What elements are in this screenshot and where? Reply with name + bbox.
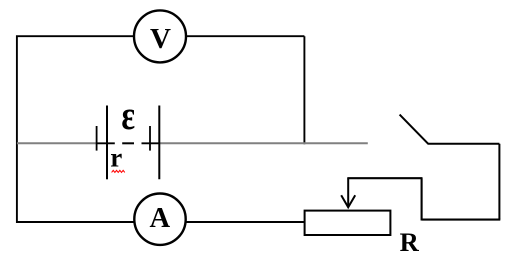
- wire left loop (top side, left vertical, bottom side): [17, 36, 305, 222]
- svg-text:r: r: [110, 143, 122, 173]
- svg-text:A: A: [150, 203, 171, 234]
- wire tick through battery cell 2 plates: [142, 142, 160, 144]
- wire battery net left segment (gray): [17, 142, 97, 144]
- label EMF epsilon: [121, 92, 135, 138]
- wire battery net right segment (gray): [159, 142, 367, 144]
- wire right vertical from top wire down to battery net: [303, 36, 305, 144]
- wire wiper lead horizontal: [347, 177, 422, 179]
- wire central dash inside battery: [122, 142, 134, 144]
- battery cell 1 short plate: [96, 126, 98, 151]
- wire tick through battery cell 1 plates: [97, 142, 115, 144]
- rheostat wiper arrowhead: [341, 195, 355, 207]
- rheostat wiper arrow shaft: [347, 178, 349, 207]
- wire switch fixed contact horizontal: [428, 143, 500, 145]
- battery cell 2 short plate: [149, 126, 151, 151]
- wire bottom-right horizontal: [422, 219, 501, 221]
- wire right-side vertical: [498, 144, 500, 220]
- red spellcheck squiggle under r: [112, 170, 125, 172]
- svg-text:R: R: [400, 227, 420, 257]
- rheostat R body box: [305, 211, 391, 235]
- ammeter A circle: [134, 194, 185, 245]
- battery cell 2 long plate: [158, 106, 160, 180]
- svg-text:V: V: [150, 23, 171, 55]
- voltmeter V circle: [134, 10, 186, 62]
- svg-text:ε: ε: [121, 92, 135, 138]
- switch blade (open): [400, 115, 429, 144]
- wire vertical up to wiper lead: [421, 178, 423, 220]
- battery cell 1 long plate: [106, 106, 108, 180]
